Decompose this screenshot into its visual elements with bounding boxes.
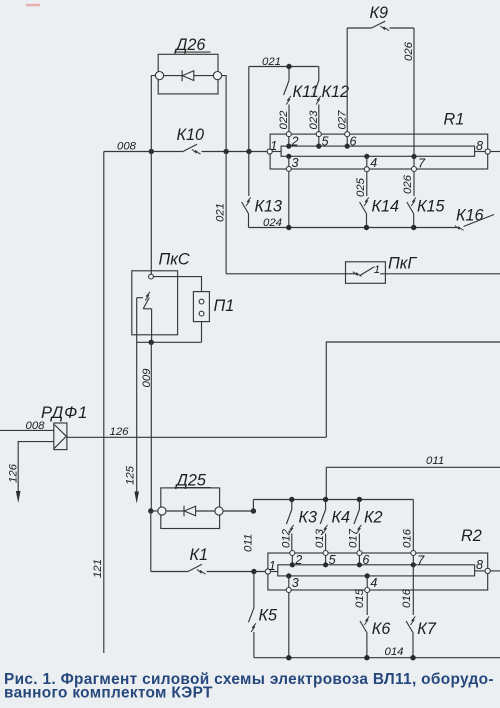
svg-text:Д26: Д26 xyxy=(174,36,205,54)
svg-text:126: 126 xyxy=(110,426,130,438)
svg-text:ванного комплектом КЭРТ: ванного комплектом КЭРТ xyxy=(4,685,213,702)
terminal 022 on R1 top xyxy=(286,132,291,137)
terminal 016 on R2 top xyxy=(411,551,416,556)
svg-text:1: 1 xyxy=(374,264,380,276)
svg-text:2: 2 xyxy=(291,134,299,148)
node tap 7 of R1 xyxy=(411,154,416,159)
svg-text:К6: К6 xyxy=(372,620,391,638)
terminal 1 of R2 xyxy=(265,569,270,574)
node junction 009 xyxy=(149,340,154,345)
wire P1 bottom link xyxy=(201,322,203,343)
wire 011 bus riser xyxy=(252,500,254,512)
svg-text:022: 022 xyxy=(278,110,290,130)
terminal 7 on R1 bottom xyxy=(413,157,415,167)
svg-text:R2: R2 xyxy=(461,527,482,545)
terminal 3 on R2 bottom xyxy=(288,576,290,588)
wire 026 from K9 down to R1 tap 7 xyxy=(413,28,415,157)
terminal 017 on R2 top xyxy=(357,551,362,556)
svg-text:К7: К7 xyxy=(417,620,437,638)
wire 024 bus xyxy=(249,227,458,229)
wire 125 tail from PkS xyxy=(136,298,138,493)
node junction K1 bus / K5 / 011 column xyxy=(251,569,256,574)
svg-text:008: 008 xyxy=(26,420,46,432)
svg-text:7: 7 xyxy=(417,553,425,567)
node junction 014/K7 xyxy=(410,655,415,660)
terminal 1 of R1 xyxy=(267,149,272,154)
terminal 027 on R1 top xyxy=(345,132,350,137)
node tap 6 of R2 xyxy=(357,562,362,567)
node junction 008/D26 right/021 drop xyxy=(223,149,228,154)
wire 011 line from right edge xyxy=(326,467,500,499)
wire left bus 121 vertical xyxy=(103,152,105,654)
node junction 014/tap3 xyxy=(286,655,291,660)
node junction 011/K2 xyxy=(357,497,362,502)
svg-text:4: 4 xyxy=(370,576,377,590)
node tap 5 of R2 xyxy=(323,562,328,567)
wire 126 from RDF1 to right xyxy=(67,436,326,438)
svg-text:К3: К3 xyxy=(299,509,318,527)
node D25 right xyxy=(251,508,256,513)
wire 009 column down to D25 xyxy=(150,342,152,510)
svg-text:К10: К10 xyxy=(177,126,205,144)
svg-text:3: 3 xyxy=(292,576,299,590)
node tap 3 of R1 xyxy=(286,154,291,159)
svg-text:РДФ1: РДФ1 xyxy=(41,404,88,422)
terminal 012 on R2 top xyxy=(290,551,295,556)
svg-text:011: 011 xyxy=(426,455,444,467)
svg-text:125: 125 xyxy=(125,465,137,485)
svg-text:026: 026 xyxy=(403,41,415,61)
wire 009 to K1 corner xyxy=(150,511,152,572)
svg-text:К9: К9 xyxy=(370,4,389,22)
wire PkS top link to P1 xyxy=(153,277,201,292)
wire K1 bus xyxy=(151,571,188,573)
terminal 013 on R2 top xyxy=(323,551,328,556)
svg-text:3: 3 xyxy=(292,156,299,170)
svg-text:R1: R1 xyxy=(444,110,465,128)
wire K9 left to terminal 027 xyxy=(346,28,348,132)
svg-text:ПкГ: ПкГ xyxy=(388,255,417,273)
svg-text:К16: К16 xyxy=(456,207,484,225)
node junction 024/K15 xyxy=(411,225,416,230)
svg-text:009: 009 xyxy=(141,368,153,388)
node junction 024/K14 xyxy=(364,225,369,230)
svg-text:126: 126 xyxy=(8,463,20,483)
svg-text:К14: К14 xyxy=(372,198,400,216)
red margin mark xyxy=(26,4,40,6)
svg-text:014: 014 xyxy=(385,646,404,658)
svg-text:6: 6 xyxy=(362,553,369,567)
wire 126 riser to right edge xyxy=(326,342,500,437)
svg-text:025: 025 xyxy=(355,177,367,197)
wire PkS bottom link xyxy=(137,341,202,343)
svg-text:1: 1 xyxy=(269,559,276,573)
svg-text:К13: К13 xyxy=(255,198,283,216)
svg-text:026: 026 xyxy=(402,174,414,194)
svg-text:К15: К15 xyxy=(417,198,446,216)
wire main column from D26 to PkS xyxy=(150,152,152,275)
node junction 014/K6 xyxy=(364,655,369,660)
node junction 008/K13 column xyxy=(246,149,251,154)
svg-text:013: 013 xyxy=(314,528,326,548)
node junction 011/K3 xyxy=(289,497,294,502)
svg-text:023: 023 xyxy=(308,110,320,130)
svg-text:К12: К12 xyxy=(322,83,350,101)
wire R2 tap7 through to K7 xyxy=(412,565,414,615)
svg-text:5: 5 xyxy=(322,134,330,148)
svg-text:К2: К2 xyxy=(364,509,383,527)
svg-text:021: 021 xyxy=(262,56,281,68)
svg-text:2: 2 xyxy=(294,553,302,567)
svg-text:021: 021 xyxy=(215,203,227,222)
PkS blade xyxy=(143,298,149,309)
node junction 024/tap3 xyxy=(286,225,291,230)
svg-text:К5: К5 xyxy=(259,607,279,625)
node tap 2 of R1 xyxy=(286,144,291,149)
svg-text:008: 008 xyxy=(117,141,137,153)
wire 008 bus horizontal xyxy=(104,151,183,153)
svg-text:5: 5 xyxy=(329,553,337,567)
node tap 7 of R2 xyxy=(411,562,416,567)
wire 021 drop to PkG bus xyxy=(225,152,227,274)
terminal 3 on R1 bottom xyxy=(288,156,290,166)
node tap 4 of R1 xyxy=(364,154,369,159)
svg-text:016: 016 xyxy=(401,588,413,608)
svg-text:7: 7 xyxy=(418,157,426,171)
svg-text:6: 6 xyxy=(350,134,357,148)
node junction 021/K11 xyxy=(286,64,291,69)
wire R2 tap3 drop to 014 bus xyxy=(288,593,290,658)
terminal 8 of R2 xyxy=(485,568,490,573)
svg-text:К4: К4 xyxy=(332,509,351,527)
svg-text:027: 027 xyxy=(336,110,348,130)
node D25 left xyxy=(148,508,153,513)
node tap 6 of R1 xyxy=(345,144,350,149)
terminal 4 on R1 bottom xyxy=(366,156,368,166)
wire 014 bus xyxy=(254,657,500,659)
svg-text:1: 1 xyxy=(270,139,277,153)
node junction 008/D26 left xyxy=(149,149,154,154)
terminal 8 of R1 xyxy=(485,149,490,154)
wire 126 left branch with arrow xyxy=(18,442,54,492)
svg-text:017: 017 xyxy=(348,528,360,548)
wire PkG bus xyxy=(226,273,345,275)
node tap 3 of R2 xyxy=(286,573,291,578)
svg-text:4: 4 xyxy=(370,156,377,170)
svg-text:Д25: Д25 xyxy=(175,472,207,490)
svg-text:011: 011 xyxy=(243,534,255,552)
node tap 4 of R2 xyxy=(365,573,370,578)
svg-text:П1: П1 xyxy=(214,297,235,315)
wire 021 top bus xyxy=(249,66,319,68)
svg-text:012: 012 xyxy=(281,528,293,548)
wire R1 tap3 drop to 024 bus xyxy=(288,171,290,227)
terminal 023 on R1 top xyxy=(316,132,321,137)
node tap 5 of R1 xyxy=(316,144,321,149)
node tap 2 of R2 xyxy=(290,562,295,567)
svg-text:016: 016 xyxy=(402,528,414,548)
terminal 4 on R2 bottom xyxy=(366,576,368,588)
svg-text:К1: К1 xyxy=(190,546,209,564)
svg-text:8: 8 xyxy=(476,139,483,153)
svg-text:024: 024 xyxy=(263,217,282,229)
wire 008 into RDF1 xyxy=(0,429,54,431)
svg-text:ПкС: ПкС xyxy=(159,251,190,269)
svg-text:8: 8 xyxy=(476,558,483,572)
wire D26 right leg xyxy=(222,76,227,152)
wire 011 corner down to R2 tap7 xyxy=(412,500,414,551)
svg-text:121: 121 xyxy=(92,559,104,578)
node junction 011/K4 xyxy=(323,497,328,502)
svg-text:015: 015 xyxy=(354,588,366,608)
wire 011 bus horizontal xyxy=(253,499,413,501)
wire D26 left leg xyxy=(151,76,155,152)
